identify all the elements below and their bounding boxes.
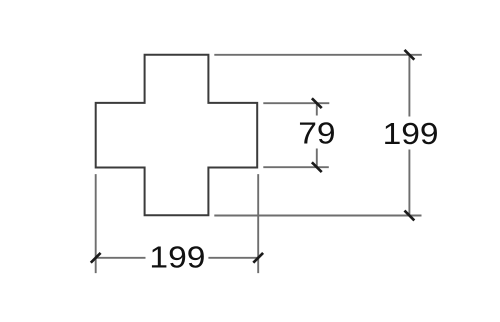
svg-text:199: 199 bbox=[149, 240, 205, 275]
svg-text:79: 79 bbox=[298, 115, 335, 150]
svg-text:199: 199 bbox=[383, 116, 439, 151]
